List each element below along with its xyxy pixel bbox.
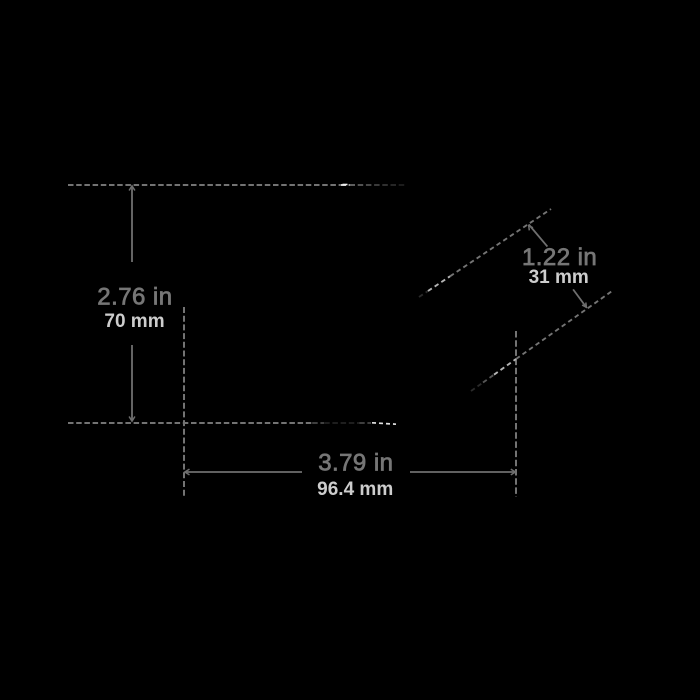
svg-text:31 mm: 31 mm bbox=[529, 267, 589, 288]
top edge dashed line fading tail dash 1 bbox=[350, 184, 356, 186]
height dimension arrowhead bottom bbox=[129, 417, 135, 422]
depth lower diagonal dashed line bright part bbox=[494, 359, 516, 375]
width dimension line right segment bbox=[410, 471, 516, 473]
top edge dashed line fading tail dash 3 bbox=[366, 184, 372, 186]
bottom edge dashed line dim segment 1 bbox=[312, 422, 324, 424]
depth upper diagonal dashed line bbox=[450, 209, 551, 276]
depth lower diagonal dashed line mid bbox=[483, 375, 494, 383]
top edge dashed line fading tail dash 7 bbox=[399, 184, 405, 186]
depth dimension line upper segment bbox=[529, 225, 548, 247]
left extension dashed line bbox=[183, 307, 185, 498]
depth dimension arrowhead upper bbox=[529, 226, 533, 231]
depth dimension line lower segment bbox=[573, 289, 586, 307]
top edge dashed line fading tail dash 5 bbox=[382, 184, 388, 186]
top edge dashed line fading tail dash 4 bbox=[374, 184, 380, 186]
height dimension line lower segment bbox=[131, 345, 133, 421]
height dimension line upper segment bbox=[131, 186, 133, 262]
bottom edge dashed line bright segment bbox=[372, 423, 396, 424]
svg-text:3.79 in: 3.79 in bbox=[318, 449, 393, 476]
bottom edge dashed line dim segment 3 bbox=[359, 422, 371, 424]
depth upper diagonal dashed line fade-in bbox=[419, 291, 428, 297]
svg-text:96.4 mm: 96.4 mm bbox=[317, 479, 393, 500]
width dimension arrowhead right bbox=[511, 469, 516, 475]
width dimension line left segment bbox=[185, 471, 302, 473]
top edge dashed line bbox=[68, 184, 340, 186]
height dimension arrowhead top bbox=[129, 186, 135, 191]
top edge dashed line fading tail dash 2 bbox=[358, 184, 364, 186]
right extension dashed line bbox=[515, 331, 517, 497]
depth upper diagonal dashed line bright part bbox=[428, 276, 450, 291]
svg-text:2.76 in: 2.76 in bbox=[97, 283, 172, 310]
svg-text:70 mm: 70 mm bbox=[104, 311, 164, 332]
top edge dashed line bright segment bbox=[341, 184, 357, 186]
top edge dashed line white speck bbox=[343, 184, 348, 186]
depth lower diagonal dashed line fade-in bbox=[471, 383, 483, 392]
bottom edge dashed line dim segment 2 bbox=[324, 422, 359, 424]
bottom edge dashed line bbox=[68, 422, 312, 424]
top edge dashed line fading tail dash 6 bbox=[391, 184, 397, 186]
width dimension arrowhead left bbox=[185, 469, 190, 475]
depth dimension arrowhead lower bbox=[582, 303, 586, 308]
depth lower diagonal dashed line bbox=[516, 290, 614, 359]
